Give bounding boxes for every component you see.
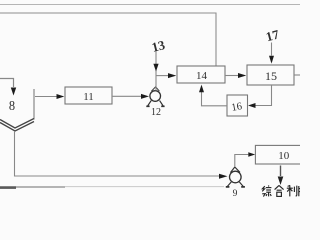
- svg-text:10: 10: [278, 150, 290, 162]
- svg-text:16: 16: [231, 101, 243, 114]
- svg-text:9: 9: [233, 189, 238, 199]
- svg-text:14: 14: [196, 70, 208, 82]
- svg-text:8: 8: [9, 98, 15, 114]
- svg-text:11: 11: [83, 91, 94, 103]
- svg-text:12: 12: [151, 107, 161, 118]
- svg-text:15: 15: [265, 69, 277, 83]
